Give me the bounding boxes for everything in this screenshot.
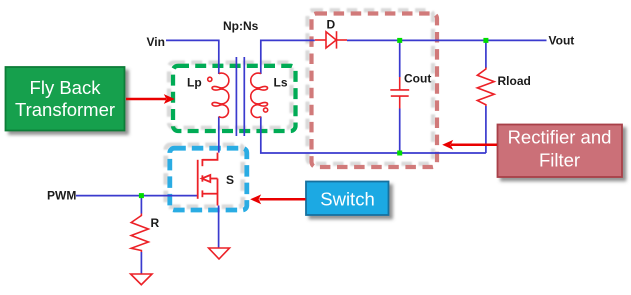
svg-text:S: S bbox=[226, 173, 234, 187]
svg-text:Switch: Switch bbox=[320, 189, 375, 210]
svg-text:Np:Ns: Np:Ns bbox=[223, 19, 259, 33]
svg-text:Rectifier and: Rectifier and bbox=[508, 127, 612, 148]
svg-text:Transformer: Transformer bbox=[15, 99, 115, 120]
svg-text:R: R bbox=[151, 216, 160, 230]
svg-text:Cout: Cout bbox=[404, 72, 431, 86]
svg-text:Filter: Filter bbox=[539, 150, 580, 171]
svg-text:Lp: Lp bbox=[187, 76, 202, 90]
svg-text:Vin: Vin bbox=[147, 35, 165, 49]
svg-text:Rload: Rload bbox=[498, 74, 531, 88]
svg-text:Vout: Vout bbox=[549, 34, 575, 48]
svg-text:Ls: Ls bbox=[274, 76, 288, 90]
svg-text:Fly Back: Fly Back bbox=[30, 77, 102, 98]
svg-text:PWM: PWM bbox=[47, 189, 76, 203]
svg-text:D: D bbox=[327, 18, 336, 32]
